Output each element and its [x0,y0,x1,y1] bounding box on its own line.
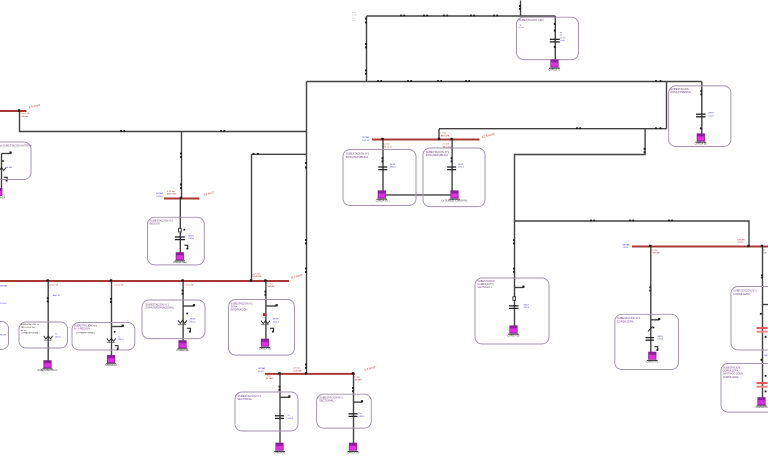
svg-text:13/0,4: 13/0,4 [55,336,62,338]
svg-text:CARGA R1: CARGA R1 [646,361,659,364]
svg-text:2,1 km: 2,1 km [443,144,450,146]
svg-text:SE1R: SE1R [657,336,663,338]
svg-text:SLGR: SLGR [6,167,12,169]
svg-text:SECTORIAL: SECTORIAL [237,397,252,401]
svg-text:INTERNACION: INTERNACION [231,309,248,312]
svg-text:CARGA Gx: CARGA Gx [105,364,118,367]
svg-text:13/0,4: 13/0,4 [390,167,397,169]
svg-text:x,x km: x,x km [383,144,389,146]
svg-text:23 kV: 23 kV [623,247,629,249]
svg-text:SE1R: SE1R [458,164,464,166]
svg-text:ANTOFA: ANTOFA [441,134,450,137]
svg-text:13,2 kV: 13,2 kV [362,140,370,142]
svg-text:CARGA H1: CARGA H1 [273,452,286,455]
svg-text:ANTOFA: ANTOFA [167,193,176,196]
svg-text:Linea: Linea [267,283,273,285]
svg-text:Linea: Linea [441,133,447,135]
svg-text:xxTRANSFORMA x: xxTRANSFORMA x [76,332,96,335]
svg-text:SE1R: SE1R [390,164,396,166]
svg-text:SETAR: SETAR [267,285,275,288]
svg-text:13 kV: 13 kV [708,115,714,117]
svg-text:SETAR: SETAR [156,192,164,195]
svg-text:CORDILLERA: CORDILLERA [723,376,739,379]
svg-text:SANTIAGO x: SANTIAGO x [477,286,492,289]
svg-text:N° x REGION: N° x REGION [74,327,90,331]
svg-text:LV SUBEST CARGA N1: LV SUBEST CARGA N1 [442,199,468,202]
svg-text:SE Linea: SE Linea [443,146,453,148]
svg-text:13/0,4: 13/0,4 [458,167,465,169]
svg-text:ZONA INTERNACIONAL: ZONA INTERNACIONAL [145,306,174,310]
svg-text:13/0,4: 13/0,4 [188,238,195,240]
svg-text:13,2kV: 13,2kV [156,196,163,198]
svg-text:13,2kV: 13,2kV [0,303,7,305]
svg-text:CORDILLERA: CORDILLERA [733,292,750,296]
svg-text:4,35 km: 4,35 km [167,191,175,193]
svg-text:Linea SE: Linea SE [21,113,30,115]
svg-text:SE1R: SE1R [273,319,279,321]
svg-text:CARGA SE: CARGA SE [507,334,520,337]
svg-text:13/0,4: 13/0,4 [273,321,280,323]
svg-text:xx xxx: xx xxx [560,37,567,39]
svg-text:13/0,4: 13/0,4 [657,339,664,341]
svg-text:SLGR: SLGR [0,334,6,336]
svg-text:Linea SE: Linea SE [115,285,124,287]
svg-text:Linea SE: Linea SE [49,285,58,287]
svg-text:xx SUBESTACION ANTOFxx: xx SUBESTACION ANTOFxx [0,145,32,148]
svg-text:13/0,4: 13/0,4 [287,418,294,420]
svg-text:Alim 1x: Alim 1x [53,294,61,297]
svg-text:CARGA H2: CARGA H2 [347,452,360,455]
svg-text:Linea: Linea [652,250,658,252]
svg-text:CARGA SE: CARGA SE [695,142,708,145]
svg-text:STGO: STGO [737,242,743,244]
svg-text:SETAR: SETAR [362,136,370,139]
svg-text:SETAR: SETAR [0,285,8,288]
svg-text:SETAR: SETAR [266,377,274,380]
svg-text:SE1R: SE1R [764,355,768,357]
svg-text:SECTORIAL: SECTORIAL [319,399,334,403]
svg-text:CARGA SE: CARGA SE [176,349,189,352]
svg-text:SE1R: SE1R [188,235,194,237]
svg-text:SETAR: SETAR [737,238,745,241]
svg-text:23 kV: 23 kV [258,371,264,373]
svg-text:CARGA T1: CARGA T1 [549,68,561,71]
svg-text:Linea SE: Linea SE [185,285,194,287]
svg-text:x SETAR: x SETAR [293,369,302,372]
svg-text:CARGA R3: CARGA R3 [755,406,768,409]
svg-text:SETAR: SETAR [623,243,631,246]
svg-text:CARGA: CARGA [0,196,6,199]
svg-text:SE xx: SE xx [21,330,28,332]
svg-text:ZONA REPUBLICA: ZONA REPUBLICA [346,155,369,159]
svg-text:SE Linea: SE Linea [383,146,393,148]
svg-text:Linea: Linea [355,377,361,379]
svg-text:SUBESTACION CEN: SUBESTACION CEN [519,18,544,22]
svg-text:REGION: REGION [150,222,160,226]
svg-text:1,25 km: 1,25 km [293,368,301,370]
svg-text:x Medio: x Medio [21,116,29,118]
svg-text:x SETAR: x SETAR [253,275,262,278]
svg-text:SE1R: SE1R [523,304,529,306]
svg-text:SETAR: SETAR [652,251,660,254]
svg-text:SETR: SETR [708,113,714,115]
svg-text:ZONA FORESTAL: ZONA FORESTAL [670,90,692,94]
svg-text:CORDILLERA: CORDILLERA [617,319,634,323]
svg-text:SETAR: SETAR [258,367,266,370]
svg-text:13/0,4: 13/0,4 [190,321,197,323]
svg-text:CARGA SE: CARGA SE [259,348,272,351]
svg-text:Linea: Linea [266,375,272,377]
svg-text:1,25 km: 1,25 km [253,273,261,275]
svg-text:CARGA N1: CARGA N1 [376,199,389,202]
svg-text:13/0,4: 13/0,4 [523,307,530,309]
svg-text:13/0,4: 13/0,4 [359,416,366,418]
svg-text:SUBESTACION xx: SUBESTACION xx [37,369,58,372]
svg-text:xxTRANSFORMA x: xxTRANSFORMA x [21,332,41,335]
svg-text:SETAR: SETAR [355,378,363,381]
svg-text:SUBESTACION xx: SUBESTACION xx [21,323,40,326]
svg-text:ZONA REPUBLICA: ZONA REPUBLICA [426,153,449,157]
svg-text:SE1R: SE1R [190,319,196,321]
svg-text:TATIO ELV SE: TATIO ELV SE [21,326,36,329]
svg-text:13/0,4: 13/0,4 [118,339,125,341]
svg-text:CARGA SE2: CARGA SE2 [173,261,187,264]
